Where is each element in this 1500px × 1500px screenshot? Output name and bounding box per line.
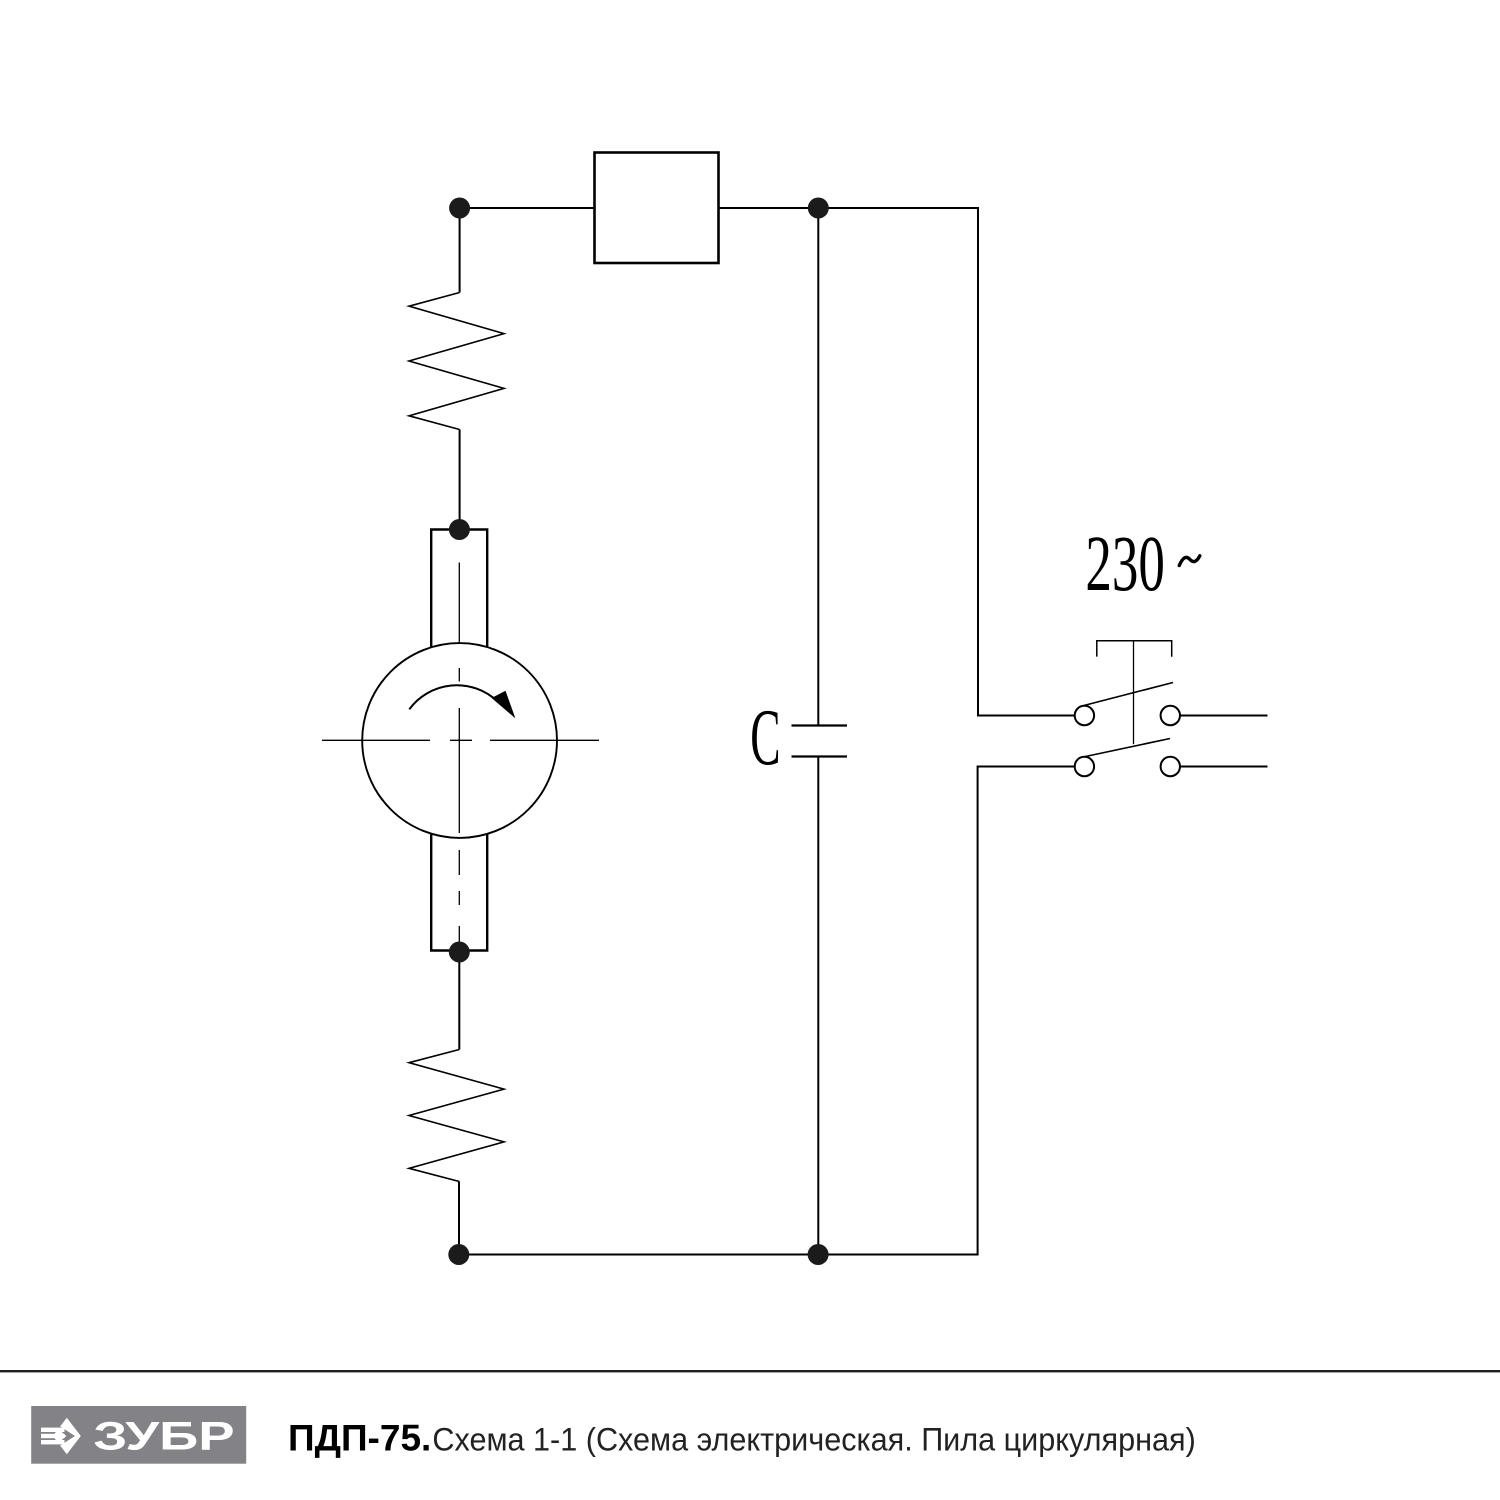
svg-text:230: 230 (1085, 519, 1165, 607)
svg-text:Схема 1-1 (Схема электрическая: Схема 1-1 (Схема электрическая. Пила цир… (432, 1422, 1195, 1458)
svg-text:C: C (750, 694, 780, 783)
svg-text:ЗУБР: ЗУБР (93, 1414, 234, 1458)
svg-text:ПДП-75.: ПДП-75. (288, 1418, 431, 1459)
